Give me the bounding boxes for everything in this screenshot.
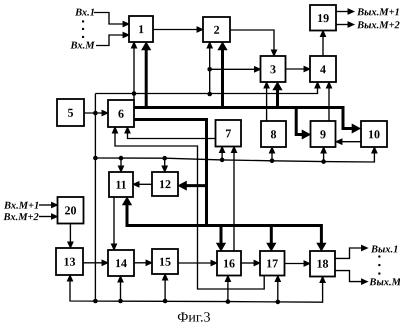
block 19 bbox=[310, 5, 336, 31]
svg-text:18: 18 bbox=[316, 257, 328, 271]
svg-text:Вх.М+2: Вх.М+2 bbox=[2, 212, 39, 223]
svg-text:Вых.М+1: Вых.М+1 bbox=[356, 7, 400, 18]
thick arrowhead into block 9 left bbox=[302, 130, 311, 139]
block 20 bbox=[58, 197, 84, 224]
junction dot block1 riser on Y94 bbox=[132, 91, 137, 96]
wire bus branch into block 15 bottom bbox=[164, 280, 166, 302]
arrowhead block 11 down into block 14 top bbox=[111, 244, 116, 250]
arrowhead block 16 into block 17 bbox=[254, 260, 260, 265]
svg-text:Вых.М+2: Вых.М+2 bbox=[356, 20, 400, 31]
block 10 bbox=[361, 121, 387, 147]
svg-text:16: 16 bbox=[223, 256, 235, 270]
arrowhead block 8 up into block 3 bottom bbox=[264, 82, 269, 88]
wire input Vx.M+2 to block 20 bbox=[39, 216, 53, 218]
thick branch into block 12 right bbox=[186, 184, 207, 187]
thick bus from block 6 right upper, corner into block 10 left bbox=[134, 108, 353, 129]
arrowhead block 10 into block 9 right bbox=[336, 139, 342, 144]
wire block 11 to block 14 top bbox=[113, 197, 115, 245]
junction dot bus block 17 bbox=[276, 300, 281, 305]
wire branch into block 9 bottom bbox=[323, 153, 325, 162]
wire block 15 to block 16 bbox=[178, 262, 212, 264]
wire block 18 to output Vyx.M bbox=[335, 271, 362, 282]
junction dot block 9 branch bbox=[321, 159, 326, 164]
wire input Vx.M to block 1 bbox=[96, 35, 124, 46]
wire bus branch into block 16 bottom bbox=[227, 281, 229, 302]
arrowhead block 13 into block 14 bbox=[102, 260, 108, 265]
wire block 18 to output Vyx.1 bbox=[335, 248, 362, 258]
arrowhead up into block 10 bottom bbox=[372, 147, 377, 153]
svg-text:Вх.1: Вх.1 bbox=[74, 8, 95, 19]
wire branch into block 7 bottom bbox=[221, 152, 223, 160]
thick riser into block 2 bottom bbox=[221, 50, 224, 106]
junction dot net209 on Y94 bbox=[207, 92, 212, 97]
svg-text:2: 2 bbox=[214, 23, 220, 37]
wire long vertical net x95 bbox=[94, 94, 96, 302]
svg-text:Вых.М: Вых.М bbox=[368, 277, 400, 288]
block 1 bbox=[129, 16, 153, 42]
arrowhead into block 3 left bbox=[255, 67, 261, 72]
arrowhead output Vyx.M bbox=[362, 279, 368, 284]
block 14 bbox=[108, 250, 134, 276]
wire block 17 bottom to block 6 bottom bbox=[115, 133, 264, 290]
wire branch into block 12 top bbox=[164, 158, 166, 166]
block 4 bbox=[310, 56, 336, 82]
svg-text:17: 17 bbox=[266, 256, 278, 270]
thick line block 6 right lower down to middle bus bbox=[134, 120, 207, 226]
junction dot block 12 branch bbox=[162, 156, 167, 161]
arrowhead thin up into block 2 bottom bbox=[207, 42, 212, 48]
junction dot x95 on bottom bus bbox=[93, 299, 98, 304]
arrowhead block 9 up into block 4 bottom bbox=[326, 82, 331, 88]
block 11 bbox=[109, 172, 133, 197]
arrowhead bus up into block 14 bottom bbox=[118, 276, 123, 282]
thick branch down into block 16 top bbox=[220, 227, 223, 244]
svg-text:4: 4 bbox=[320, 62, 326, 76]
wire block 19 to output Vyx.M+1 bbox=[336, 11, 349, 13]
wire block 17 to block 18 bbox=[285, 263, 306, 265]
svg-text:5: 5 bbox=[68, 106, 74, 120]
block 5 bbox=[57, 99, 84, 126]
svg-text:Фиг.3: Фиг.3 bbox=[177, 310, 210, 324]
wire branch into block 8 bottom bbox=[271, 153, 273, 161]
arrowhead block 1 into block 2 bbox=[197, 27, 203, 32]
thick arrowhead up into block 2 bottom bbox=[218, 42, 227, 50]
wire input Vx.1 to block 1 bbox=[94, 13, 124, 25]
svg-text:7: 7 bbox=[225, 126, 231, 140]
wire branch into block 3 left bbox=[210, 68, 256, 70]
wire input Vx.M+1 to block 20 bbox=[39, 204, 53, 206]
arrowhead up into block 7 bottom left bbox=[219, 147, 224, 153]
arrowhead bus up into block 16 bottom bbox=[225, 276, 230, 282]
wire vertical net into block 2 bottom bbox=[209, 48, 211, 95]
arrowhead up into block 8 bottom bbox=[269, 147, 274, 153]
junction dot block 7 branch bbox=[220, 158, 225, 163]
arrowhead thin up into block 1 bottom bbox=[131, 42, 136, 48]
wire block 1 to block 2 bbox=[153, 29, 198, 31]
junction dot net209 y69 bbox=[207, 67, 212, 72]
thick arrowhead up into block 1 bottom bbox=[142, 42, 151, 50]
arrowhead bus up into block 13 bottom bbox=[67, 275, 72, 281]
thick middle bus Y225 bbox=[127, 205, 321, 244]
svg-text:10: 10 bbox=[368, 127, 380, 141]
svg-text:12: 12 bbox=[159, 177, 171, 191]
wire block 14 to block 15 bbox=[134, 262, 147, 264]
wire thin riser into block 1 bottom bbox=[133, 48, 135, 101]
wire bottom bus bbox=[70, 281, 323, 303]
block 9 bbox=[311, 121, 336, 147]
wire block 19 to output Vyx.M+2 bbox=[336, 24, 349, 26]
arrowhead input Vx.1 into block 1 bbox=[123, 21, 129, 26]
svg-text:Вых.1: Вых.1 bbox=[370, 244, 398, 255]
wire bus branch into block 14 bottom bbox=[120, 282, 122, 302]
block 6 bbox=[108, 100, 134, 127]
arrowhead output Vyx.M+2 bbox=[348, 22, 354, 27]
thick arrowhead down into block 17 top bbox=[267, 243, 276, 251]
wire block 12 to block 11 right bbox=[139, 183, 153, 185]
junction dot block5 line on x95 bbox=[93, 111, 98, 116]
wire net Y94 to block 4 bottom bbox=[95, 88, 317, 94]
svg-text:11: 11 bbox=[115, 178, 126, 192]
arrowhead block 17 into block 18 bbox=[304, 261, 310, 266]
arrowhead block 20 down into block 13 top bbox=[68, 242, 73, 248]
wire block 20 to block 13 bbox=[69, 224, 71, 244]
block 8 bbox=[261, 121, 286, 147]
svg-text:13: 13 bbox=[63, 255, 75, 269]
thick arrowhead down into block 18 top bbox=[317, 243, 326, 251]
arrowhead down into block 11 top bbox=[118, 166, 123, 172]
wire block 5 to block 6 bbox=[84, 112, 103, 114]
arrowhead bus up into block 15 bottom bbox=[162, 274, 167, 280]
arrowhead bus up into block 18 bottom bbox=[320, 277, 325, 283]
svg-text:9: 9 bbox=[320, 127, 326, 141]
svg-text:Вх.М: Вх.М bbox=[70, 41, 96, 52]
block 18 bbox=[310, 251, 335, 277]
junction dot bus block 14 bbox=[118, 299, 123, 304]
thick arrowhead up into block 11 bottom bbox=[122, 197, 131, 205]
block 15 bbox=[152, 249, 178, 274]
wire block 2 to block 3 top bbox=[230, 30, 274, 51]
arrowhead block 16 up into block 7 bottom right bbox=[231, 147, 236, 153]
wire block 10 to block 9 right bbox=[342, 141, 362, 143]
junction dot bus block 16 bbox=[226, 299, 231, 304]
junction dot block 8 branch bbox=[270, 159, 275, 164]
svg-text:14: 14 bbox=[115, 256, 127, 270]
wire bus branch into block 17 bottom bbox=[277, 281, 279, 302]
arrowhead input Vx.M+2 into block 20 bbox=[52, 214, 58, 219]
block 2 bbox=[203, 17, 230, 42]
thick riser into block 1 bottom bbox=[145, 50, 148, 106]
svg-text:15: 15 bbox=[159, 255, 171, 269]
block 12 bbox=[152, 172, 178, 196]
thick branch down into block 17 top bbox=[270, 227, 273, 244]
svg-text:1: 1 bbox=[138, 22, 144, 36]
arrowhead input Vx.M+1 into block 20 bbox=[52, 202, 58, 207]
arrowhead down into block 3 top bbox=[271, 50, 276, 56]
block 17 bbox=[260, 251, 285, 276]
junction dot block 11 branch bbox=[119, 156, 124, 161]
arrowhead up into block 6 bottom left bbox=[112, 127, 117, 133]
wire branch into block 11 top bbox=[120, 158, 122, 166]
svg-text:Вх.М+1: Вх.М+1 bbox=[3, 201, 39, 212]
thick riser into block 3 bottom bbox=[276, 90, 279, 107]
svg-text:8: 8 bbox=[271, 127, 277, 141]
wire block 13 to block 14 bbox=[83, 262, 103, 264]
arrowhead block 15 into block 16 bbox=[211, 260, 217, 265]
ellipsis dots outputs right bbox=[378, 255, 380, 257]
block 16 bbox=[217, 251, 241, 276]
arrowhead up into block 6 bottom right bbox=[125, 127, 130, 133]
junction dot Y159 on x95 bbox=[93, 156, 98, 161]
svg-text:20: 20 bbox=[64, 203, 76, 217]
svg-text:19: 19 bbox=[317, 11, 329, 25]
junction dot bus block 15 bbox=[163, 299, 168, 304]
wire block 4 to block 19 bbox=[322, 36, 324, 56]
arrowhead block 14 into block 15 bbox=[146, 260, 152, 265]
arrowhead up into block 9 bottom bbox=[321, 147, 326, 153]
block 3 bbox=[261, 56, 286, 82]
block 7 bbox=[216, 120, 242, 147]
arrowhead block 5 into block 6 bbox=[102, 110, 108, 115]
thick arrowhead up into block 3 bottom bbox=[273, 82, 282, 90]
arrowhead output Vyx.1 bbox=[362, 245, 368, 250]
svg-text:3: 3 bbox=[270, 62, 276, 76]
ellipsis dots inputs top bbox=[82, 20, 84, 22]
arrowhead bus up into block 17 bottom bbox=[275, 276, 280, 282]
wire block 9 to block 4 bottom bbox=[328, 88, 330, 122]
arrowhead input Vx.M into block 1 bbox=[123, 32, 129, 37]
wire net Y159 with corner into block 10 bottom bbox=[95, 153, 374, 163]
wire block 8 to block 3 bottom bbox=[266, 88, 268, 122]
thick arrowhead down into block 16 top bbox=[216, 243, 225, 251]
block 13 bbox=[56, 248, 83, 275]
arrowhead down into block 12 top bbox=[162, 166, 167, 172]
arrowhead output Vyx.M+1 bbox=[348, 9, 354, 14]
wire block 7 left to block 6 bottom bbox=[128, 133, 216, 139]
wire block 16 to block 17 bbox=[241, 262, 255, 264]
wire block 3 to block 4 bbox=[286, 68, 306, 70]
thick branch into block 9 left bbox=[296, 109, 303, 135]
arrowhead up into block 4 bottom left bbox=[315, 82, 320, 88]
thick arrowhead into block 12 right bbox=[178, 181, 187, 190]
thick arrowhead into block 10 left bbox=[352, 124, 361, 133]
arrowhead block 12 into block 11 right bbox=[133, 182, 139, 187]
svg-text:6: 6 bbox=[118, 107, 124, 121]
wire block 16 top to block 7 bottom bbox=[233, 152, 235, 251]
arrowhead up into block 19 bottom bbox=[320, 31, 325, 37]
arrowhead block 3 into block 4 bbox=[304, 66, 310, 71]
